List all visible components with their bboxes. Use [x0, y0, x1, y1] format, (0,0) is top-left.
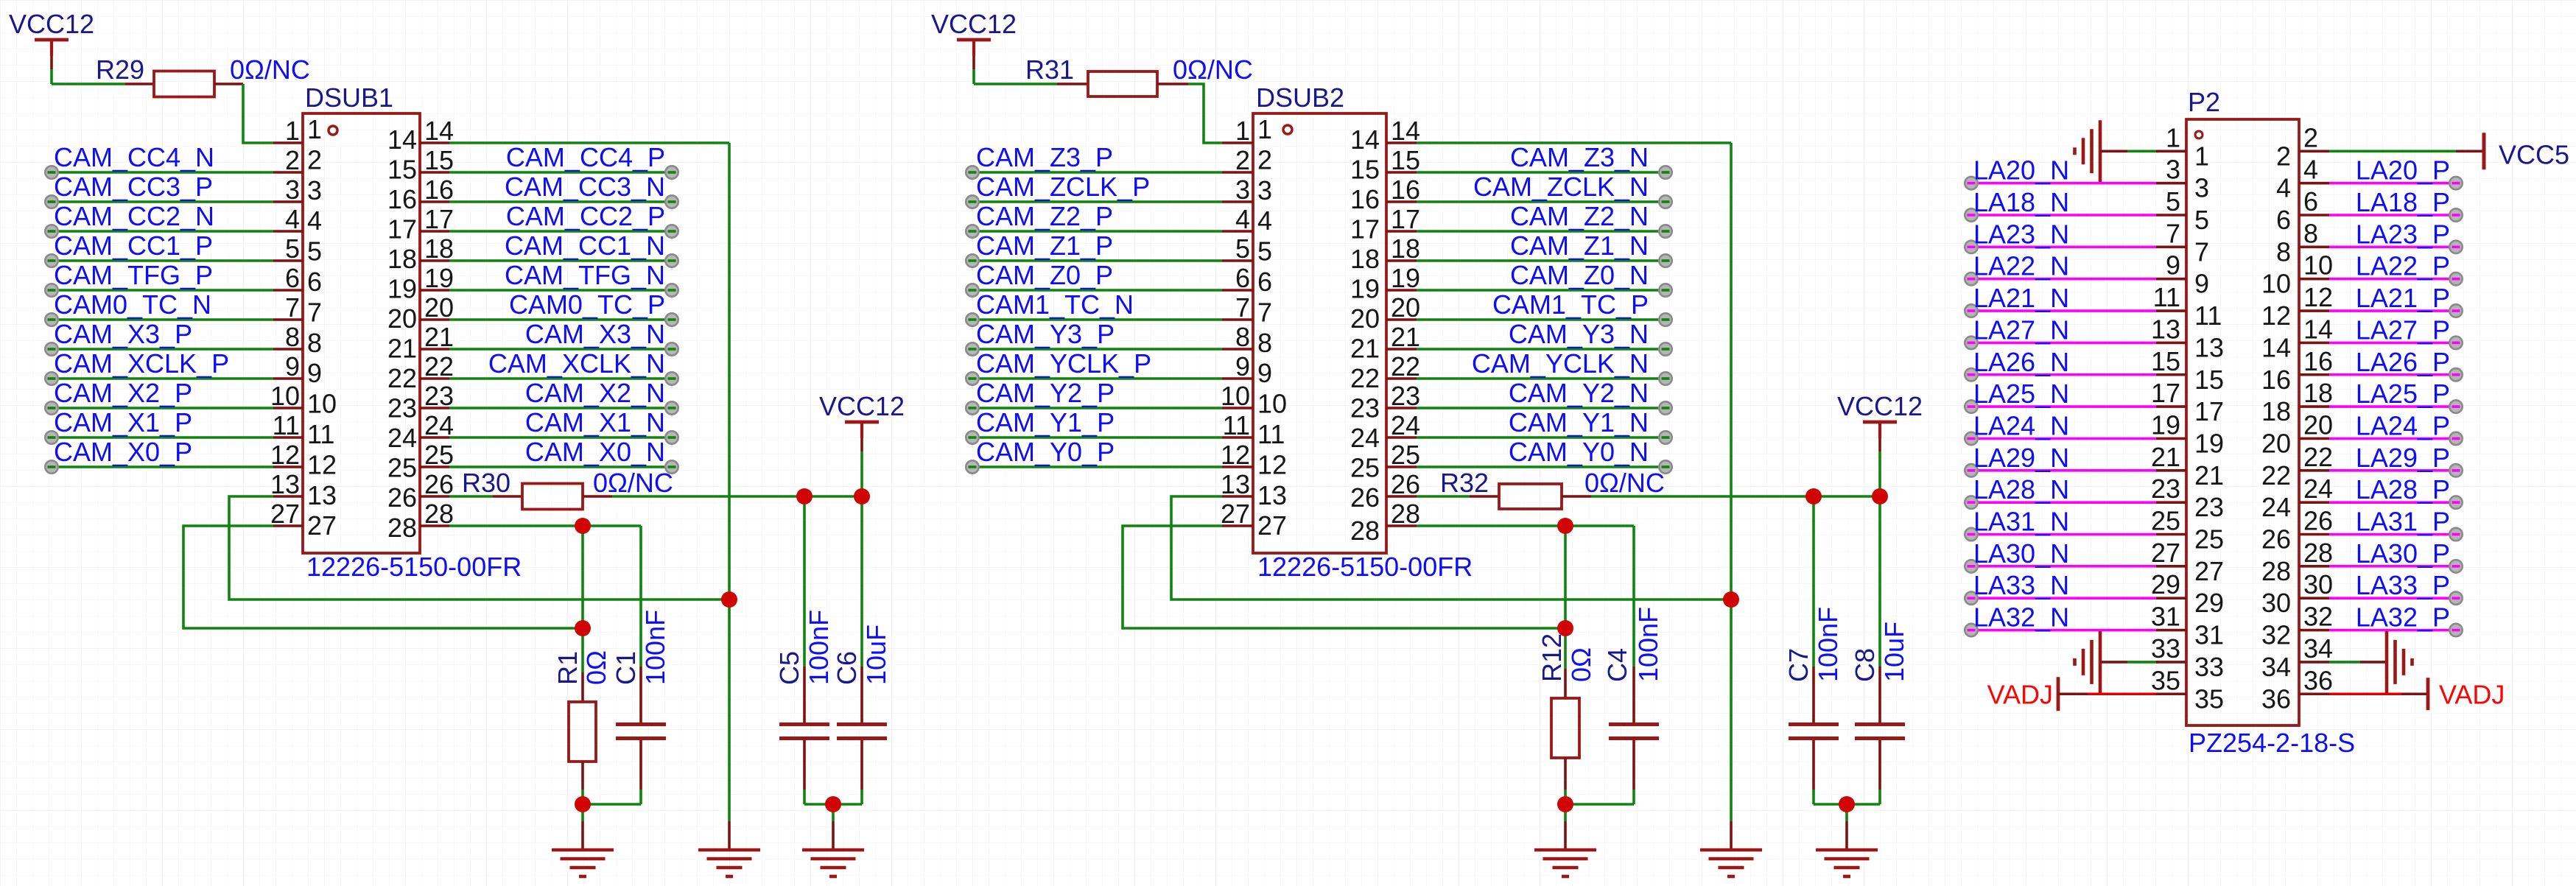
node CAM_ZCLK_N — [1659, 195, 1671, 208]
svg-text:CAM1_TC_P: CAM1_TC_P — [1492, 289, 1649, 320]
part number PZ254-2-18-S — [2189, 728, 2355, 758]
net label LA20_P — [2356, 155, 2450, 186]
capacitor C6 — [832, 496, 887, 804]
node CAM_YCLK_N — [1659, 372, 1671, 384]
node LA28_P — [2449, 496, 2462, 508]
svg-text:LA28_N: LA28_N — [1973, 474, 2069, 504]
svg-text:100nF: 100nF — [640, 610, 670, 685]
svg-text:CAM_X2_N: CAM_X2_N — [525, 378, 665, 408]
pin 7 — [273, 292, 322, 327]
capacitor C4 — [1602, 526, 1659, 804]
svg-text:21: 21 — [387, 334, 417, 364]
node CAM0_TC_P — [665, 313, 678, 326]
svg-text:9: 9 — [2194, 269, 2209, 299]
svg-text:CAM_YCLK_N: CAM_YCLK_N — [1472, 348, 1649, 379]
wire — [969, 348, 1222, 351]
svg-text:CAM_TFG_P: CAM_TFG_P — [54, 260, 213, 290]
node LA24_P — [2449, 432, 2462, 445]
wire — [1968, 214, 2156, 217]
pin 25 — [387, 440, 454, 483]
svg-text:CAM_CC1_P: CAM_CC1_P — [54, 231, 213, 261]
svg-text:23: 23 — [1350, 393, 1380, 423]
svg-text:20: 20 — [387, 303, 417, 334]
net label CAM_Z1_P — [976, 231, 1113, 261]
svg-text:LA18_P: LA18_P — [2356, 187, 2450, 217]
pin 20 — [387, 292, 454, 334]
net label CAM1_TC_N — [976, 289, 1134, 320]
svg-text:CAM_Z2_N: CAM_Z2_N — [1510, 201, 1649, 231]
wire — [449, 171, 669, 174]
ground — [552, 804, 614, 876]
wire — [49, 171, 273, 174]
net label CAM_Y2_P — [976, 378, 1115, 408]
net label CAM_YCLK_P — [976, 348, 1151, 379]
node LA21_P — [2449, 304, 2462, 317]
node LA27_P — [2449, 337, 2462, 349]
wire — [1417, 289, 1663, 292]
svg-text:CAM_Y0_P: CAM_Y0_P — [976, 437, 1115, 467]
svg-text:7: 7 — [2194, 236, 2209, 267]
pin 23 — [1350, 381, 1420, 423]
net label CAM0_TC_N — [54, 289, 211, 320]
svg-text:22: 22 — [424, 351, 454, 382]
svg-text:27: 27 — [270, 499, 300, 529]
svg-text:VADJ: VADJ — [2439, 679, 2505, 709]
svg-text:18: 18 — [387, 244, 417, 274]
svg-text:20: 20 — [2261, 428, 2291, 458]
ground — [2360, 631, 2412, 693]
wire — [969, 200, 1222, 203]
svg-text:16: 16 — [1391, 175, 1420, 205]
wire — [449, 436, 669, 439]
svg-text:24: 24 — [2261, 492, 2291, 522]
ground — [698, 821, 760, 876]
svg-text:14: 14 — [424, 116, 454, 146]
wire — [2329, 246, 2453, 249]
wire — [1417, 259, 1663, 262]
svg-text:31: 31 — [2151, 602, 2180, 632]
svg-text:12: 12 — [2261, 300, 2291, 331]
pin 2 — [273, 144, 322, 175]
wire — [2329, 309, 2453, 312]
ground — [2075, 120, 2128, 182]
pin 8 — [273, 322, 322, 358]
node LA27_N — [1965, 337, 1977, 349]
junction — [1805, 488, 1822, 504]
svg-text:15: 15 — [1350, 155, 1380, 185]
pin 15 — [387, 145, 454, 185]
svg-text:19: 19 — [1350, 274, 1380, 304]
svg-text:12226-5150-00FR: 12226-5150-00FR — [306, 552, 522, 582]
svg-text:17: 17 — [387, 214, 417, 245]
wire — [581, 526, 584, 672]
svg-text:CAM_YCLK_P: CAM_YCLK_P — [976, 348, 1151, 379]
net label LA32_P — [2356, 602, 2450, 633]
node LA29_N — [1965, 464, 1977, 477]
node CAM_Z3_N — [1659, 166, 1671, 178]
pin 14 — [387, 116, 454, 155]
node CAM_X0_N — [665, 460, 678, 473]
svg-text:15: 15 — [2194, 365, 2224, 395]
net label CAM_X0_P — [54, 437, 192, 467]
node CAM_CC3_P — [45, 195, 57, 208]
wire — [974, 69, 1057, 84]
wire — [612, 495, 862, 498]
svg-text:0Ω/NC: 0Ω/NC — [1173, 55, 1253, 85]
svg-text:0Ω/NC: 0Ω/NC — [593, 468, 673, 498]
svg-text:7: 7 — [1257, 297, 1272, 327]
svg-text:12: 12 — [1221, 440, 1250, 470]
svg-text:34: 34 — [2303, 633, 2333, 664]
net label LA24_N — [1973, 410, 2069, 440]
wire — [183, 526, 583, 628]
node CAM_X2_P — [45, 401, 57, 414]
svg-text:15: 15 — [1391, 145, 1420, 175]
pin 3 — [273, 175, 322, 205]
wire — [49, 377, 273, 380]
svg-text:3: 3 — [285, 175, 300, 205]
wire — [1417, 377, 1663, 380]
svg-text:5: 5 — [2166, 186, 2180, 217]
junction — [825, 796, 841, 812]
wire — [449, 524, 641, 527]
pin 7 — [1222, 292, 1272, 327]
svg-text:35: 35 — [2194, 683, 2224, 714]
svg-text:11: 11 — [1257, 419, 1285, 449]
wire — [2329, 278, 2453, 281]
part number 12226-5150-00FR — [1257, 552, 1473, 582]
value 10uF of C6 — [861, 625, 891, 685]
wire — [1591, 495, 1880, 498]
svg-text:CAM_CC2_P: CAM_CC2_P — [506, 201, 665, 231]
pin 16 — [1350, 175, 1420, 214]
net label LA30_P — [2356, 538, 2450, 569]
node LA26_P — [2449, 368, 2462, 381]
net label LA28_P — [2356, 474, 2450, 504]
junction — [854, 488, 870, 504]
pin 19 — [387, 263, 454, 304]
node CAM_CC2_N — [45, 225, 57, 237]
pin 2 — [2276, 122, 2329, 171]
svg-text:28: 28 — [2303, 538, 2333, 568]
svg-text:12: 12 — [270, 440, 300, 470]
wire — [449, 377, 669, 380]
power VCC12 — [931, 9, 1017, 69]
svg-text:28: 28 — [1350, 516, 1380, 546]
pin 36 — [2261, 665, 2333, 714]
svg-text:CAM_Y1_P: CAM_Y1_P — [976, 407, 1115, 437]
node LA22_N — [1965, 273, 1977, 285]
svg-text:CAM_Z0_N: CAM_Z0_N — [1510, 260, 1649, 290]
wire — [969, 465, 1222, 468]
svg-text:21: 21 — [1391, 322, 1420, 352]
wire — [1171, 496, 1731, 600]
svg-text:5: 5 — [307, 236, 322, 267]
svg-text:27: 27 — [2194, 556, 2224, 586]
svg-text:25: 25 — [2194, 524, 2224, 555]
node LA32_N — [1965, 624, 1977, 636]
net label LA24_P — [2356, 410, 2450, 440]
svg-text:6: 6 — [2276, 205, 2291, 235]
node LA28_N — [1965, 496, 1977, 508]
svg-text:1: 1 — [2194, 141, 2209, 171]
pin 3 — [1222, 175, 1272, 205]
value 0R/NC of R30 — [593, 468, 673, 498]
wire — [728, 143, 731, 821]
svg-text:10: 10 — [307, 389, 337, 419]
svg-text:33: 33 — [2151, 633, 2180, 664]
net label LA33_P — [2356, 570, 2450, 600]
value 10uF of C8 — [1879, 622, 1909, 682]
svg-text:27: 27 — [307, 510, 337, 541]
net label LA18_P — [2356, 187, 2450, 217]
pin 23 — [2151, 474, 2224, 522]
value 0R/NC of R31 — [1173, 55, 1253, 85]
wire — [2329, 373, 2453, 376]
net label CAM_X0_N — [525, 437, 665, 467]
net label CAM_Z2_P — [976, 201, 1113, 231]
resistor R32 — [1417, 468, 1591, 509]
pin 13 — [2151, 314, 2224, 362]
junction — [1839, 796, 1855, 812]
svg-text:9: 9 — [1257, 358, 1272, 388]
wire — [2329, 565, 2453, 568]
net label LA29_N — [1973, 443, 2069, 473]
svg-text:26: 26 — [387, 482, 417, 513]
wire — [49, 436, 273, 439]
value 0R of R12 — [1566, 647, 1596, 682]
net label CAM_TFG_P — [54, 260, 213, 290]
svg-text:CAM_X3_P: CAM_X3_P — [54, 319, 192, 349]
net label CAM_Z0_P — [976, 260, 1113, 290]
svg-text:31: 31 — [2194, 620, 2224, 650]
pin 18 — [387, 233, 454, 274]
svg-text:18: 18 — [1350, 244, 1380, 274]
net label CAM_Z3_P — [976, 142, 1113, 172]
junction — [575, 518, 591, 534]
svg-text:18: 18 — [1391, 233, 1420, 264]
net label CAM_Z1_N — [1510, 231, 1649, 261]
svg-text:26: 26 — [2303, 506, 2333, 536]
pin 33 — [2151, 633, 2224, 682]
wire — [1968, 309, 2156, 312]
svg-text:CAM_Z3_P: CAM_Z3_P — [976, 142, 1113, 172]
wire — [1968, 405, 2156, 408]
svg-text:CAM_Y0_N: CAM_Y0_N — [1509, 437, 1649, 467]
svg-text:14: 14 — [387, 124, 417, 155]
connector DSUB1 — [303, 82, 420, 553]
node LA33_P — [2449, 592, 2462, 605]
svg-text:6: 6 — [1235, 263, 1250, 293]
svg-text:26: 26 — [1350, 482, 1380, 513]
net label CAM1_TC_P — [1492, 289, 1649, 320]
svg-text:LA21_N: LA21_N — [1973, 283, 2069, 313]
wire — [969, 407, 1222, 409]
pin 4 — [273, 204, 322, 236]
wire — [1968, 469, 2156, 472]
svg-text:13: 13 — [270, 469, 300, 499]
node LA20_N — [1965, 177, 1977, 189]
svg-text:8: 8 — [1235, 322, 1250, 352]
svg-text:8: 8 — [2276, 236, 2291, 267]
svg-text:24: 24 — [387, 423, 417, 453]
wire — [1417, 141, 1731, 144]
svg-text:10: 10 — [1257, 389, 1287, 419]
net label CAM_X2_P — [54, 378, 192, 408]
node CAM_Z0_N — [1659, 284, 1671, 296]
pin 5 — [273, 233, 322, 267]
svg-text:13: 13 — [1221, 469, 1250, 499]
node CAM_X0_P — [45, 460, 57, 473]
svg-text:5: 5 — [1257, 236, 1272, 267]
node LA24_N — [1965, 432, 1977, 445]
svg-text:4: 4 — [1257, 205, 1272, 236]
node CAM_X2_N — [665, 401, 678, 414]
value 100nF of C5 — [804, 610, 834, 685]
svg-text:15: 15 — [387, 155, 417, 185]
pin 12 — [2261, 282, 2333, 331]
ground — [802, 804, 864, 876]
svg-text:LA23_P: LA23_P — [2356, 219, 2450, 249]
pin 26 — [387, 469, 454, 513]
pin 28 — [387, 499, 454, 543]
wire — [1123, 526, 1565, 628]
wire — [804, 803, 862, 806]
wire — [1968, 437, 2156, 440]
pin 9 — [2156, 250, 2209, 299]
svg-text:19: 19 — [2151, 409, 2180, 440]
pin 12 — [1221, 440, 1287, 479]
wire — [49, 259, 273, 262]
node CAM_Z2_N — [1659, 225, 1671, 237]
svg-text:R12: R12 — [1537, 633, 1567, 682]
node CAM_CC1_P — [45, 254, 57, 267]
svg-text:24: 24 — [1391, 410, 1420, 440]
node CAM_CC1_N — [665, 254, 678, 267]
svg-text:LA20_N: LA20_N — [1973, 155, 2069, 186]
node CAM1_TC_N — [966, 313, 978, 326]
wire — [1968, 278, 2156, 281]
svg-text:10: 10 — [1221, 381, 1250, 411]
svg-text:LA26_P: LA26_P — [2356, 347, 2450, 377]
wire — [1417, 465, 1663, 468]
svg-text:28: 28 — [387, 513, 417, 543]
net label LA21_N — [1973, 283, 2069, 313]
net label CAM_Y3_P — [976, 319, 1115, 349]
svg-text:6: 6 — [285, 263, 300, 293]
svg-text:2: 2 — [285, 145, 300, 175]
wire — [49, 200, 273, 203]
svg-text:CAM0_TC_N: CAM0_TC_N — [54, 289, 211, 320]
svg-text:4: 4 — [307, 205, 322, 236]
svg-text:CAM_CC1_N: CAM_CC1_N — [505, 231, 665, 261]
svg-text:6: 6 — [1257, 267, 1272, 297]
svg-text:R30: R30 — [462, 468, 510, 498]
svg-text:LA22_N: LA22_N — [1973, 251, 2069, 281]
svg-text:6: 6 — [2303, 186, 2318, 217]
svg-text:22: 22 — [387, 363, 417, 393]
net label CAM_XCLK_N — [488, 348, 665, 379]
svg-text:25: 25 — [1391, 440, 1420, 470]
pin 10 — [2261, 250, 2333, 299]
node LA31_P — [2449, 528, 2462, 541]
node CAM1_TC_P — [1659, 313, 1671, 326]
net label LA25_N — [1973, 379, 2069, 409]
svg-text:LA23_N: LA23_N — [1973, 219, 2069, 249]
pin 8 — [2276, 218, 2329, 267]
svg-text:18: 18 — [2261, 396, 2291, 426]
svg-text:25: 25 — [387, 453, 417, 483]
svg-text:8: 8 — [285, 322, 300, 352]
wire — [2329, 405, 2453, 408]
svg-text:LA32_P: LA32_P — [2356, 602, 2450, 633]
junction — [575, 620, 591, 636]
svg-text:24: 24 — [424, 410, 454, 440]
pin 27 — [1221, 499, 1287, 541]
svg-text:C5: C5 — [774, 651, 804, 685]
svg-text:20: 20 — [2303, 409, 2333, 440]
wire — [1968, 565, 2156, 568]
net label CAM_CC3_P — [54, 172, 213, 202]
pin 25 — [2151, 506, 2224, 555]
svg-text:C7: C7 — [1783, 648, 1814, 682]
wire — [2329, 469, 2453, 472]
wire — [1968, 533, 2156, 536]
pin 24 — [387, 410, 454, 453]
wire — [2127, 661, 2158, 664]
wire — [2329, 661, 2360, 664]
wire — [49, 465, 273, 468]
net label LA31_N — [1973, 507, 2069, 537]
wire — [449, 200, 669, 203]
svg-text:DSUB2: DSUB2 — [1256, 82, 1344, 113]
wire — [1968, 246, 2156, 249]
net label CAM_CC2_P — [506, 201, 665, 231]
ground — [1534, 804, 1596, 876]
svg-text:2: 2 — [2276, 141, 2291, 171]
svg-text:10uF: 10uF — [861, 625, 891, 685]
power VADJ — [1987, 677, 2058, 711]
wire — [2329, 501, 2453, 504]
wire — [449, 407, 669, 409]
node LA20_P — [2449, 177, 2462, 189]
net label CAM_Z3_N — [1510, 142, 1649, 172]
svg-text:DSUB1: DSUB1 — [305, 82, 393, 113]
svg-text:16: 16 — [1350, 184, 1380, 214]
svg-text:19: 19 — [2194, 428, 2224, 458]
wire — [449, 289, 669, 292]
svg-text:PZ254-2-18-S: PZ254-2-18-S — [2189, 728, 2355, 758]
value 0R of R1 — [581, 650, 611, 685]
net label CAM0_TC_P — [509, 289, 665, 320]
net label CAM_Y1_P — [976, 407, 1115, 437]
ground — [2075, 631, 2128, 693]
node LA29_P — [2449, 464, 2462, 477]
svg-text:13: 13 — [2194, 332, 2224, 362]
pin 21 — [2151, 442, 2224, 491]
node LA33_N — [1965, 592, 1977, 605]
wire — [229, 496, 729, 600]
node CAM_Y0_P — [966, 460, 978, 473]
value 0R/NC of R32 — [1584, 468, 1665, 498]
wire — [1565, 790, 1634, 804]
node CAM_YCLK_P — [966, 372, 978, 384]
wire — [1417, 230, 1663, 233]
wire — [2329, 629, 2453, 632]
net label CAM_Z2_N — [1510, 201, 1649, 231]
svg-text:11: 11 — [2194, 300, 2222, 331]
svg-text:CAM_Z0_P: CAM_Z0_P — [976, 260, 1113, 290]
